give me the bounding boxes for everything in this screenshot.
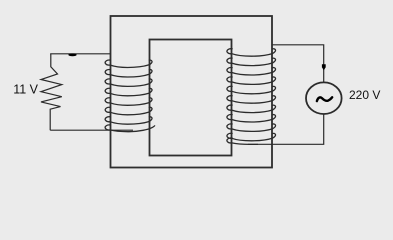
wire: source bottom + right loop bottom [248,114,324,144]
AC sine symbol [317,97,332,101]
primary coil L1 (left winding, 7 turns + exit sweep) [105,60,155,132]
polarity dash marker on left top wire [68,54,76,57]
transformer core outer rectangle [111,16,273,168]
wire: left loop top [50,53,110,55]
wire: left loop bottom [50,129,133,131]
secondary coil L2 (right winding, 10 turns + exit sweep) [227,49,276,145]
wire: right loop top [272,45,324,83]
transformer core inner rectangle (window) [150,40,232,156]
resistor R1 (11 V side) [41,54,62,130]
AC source V1 circle [306,82,342,114]
current arrow marker on right wire [322,64,326,70]
svg-text:220 V: 220 V [349,88,380,102]
svg-text:11 V: 11 V [13,83,38,97]
